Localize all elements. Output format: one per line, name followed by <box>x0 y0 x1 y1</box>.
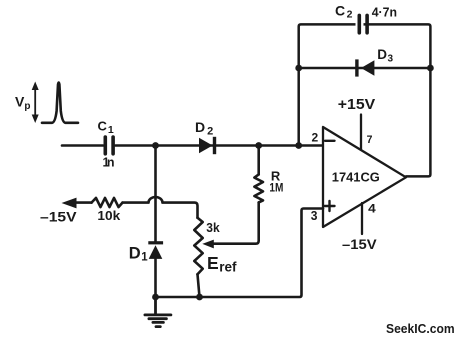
node junction at feedback branch <box>295 142 302 149</box>
wire pot bottom <box>198 274 200 297</box>
svg-text:7: 7 <box>367 134 373 146</box>
node junction ground <box>152 294 159 301</box>
capacitor C2 (gap in top wire) <box>356 23 364 27</box>
svg-text:–15V: –15V <box>342 237 377 252</box>
capacitor C1 <box>105 137 113 154</box>
potentiometer 3k <box>194 218 202 274</box>
svg-text:D1: D1 <box>129 245 148 264</box>
node junction at R branch <box>255 142 262 149</box>
wire D1 to ground <box>154 259 157 297</box>
svg-text:SeekIC.com: SeekIC.com <box>386 321 455 336</box>
op-amp plus symbol <box>325 201 335 211</box>
wire with bump over vertical line <box>123 197 198 218</box>
arrowhead -15V <box>62 198 77 209</box>
ground <box>145 297 171 327</box>
svg-text:10k: 10k <box>97 208 121 223</box>
wire D3 branch <box>299 67 431 70</box>
svg-text:1741CG: 1741CG <box>332 169 380 184</box>
op-amp U1 triangle <box>323 127 406 227</box>
wire main input right segment <box>116 144 324 147</box>
wire vertical from C1 node down <box>154 146 157 243</box>
svg-text:3: 3 <box>311 209 318 223</box>
wire R bottom to pot wiper <box>212 202 259 243</box>
wire main input left segment <box>62 144 103 147</box>
wire op-amp output to right vertical <box>299 24 431 176</box>
diode D1 <box>148 241 163 259</box>
svg-text:3k: 3k <box>206 221 219 235</box>
svg-text:1M: 1M <box>269 180 283 194</box>
Vp double arrow <box>34 86 36 119</box>
resistor 10k <box>92 198 123 207</box>
node junction D3 right <box>427 65 434 72</box>
pin 7 wire <box>360 115 362 150</box>
arrowhead wiper <box>202 240 214 249</box>
svg-text:1n: 1n <box>103 156 115 170</box>
node junction at C1 branch <box>152 142 159 149</box>
diode D3 <box>355 59 374 76</box>
op-amp minus symbol <box>325 140 335 142</box>
node junction D3 left <box>295 65 302 72</box>
svg-text:–15V: –15V <box>40 208 77 224</box>
wire R top stub <box>257 146 260 175</box>
svg-text:+15V: +15V <box>338 97 376 113</box>
svg-text:C2: C2 <box>335 2 353 20</box>
svg-text:C1: C1 <box>98 119 114 137</box>
svg-text:D2: D2 <box>195 119 213 138</box>
diode D2 <box>199 137 216 154</box>
Vp pulse waveform <box>42 83 78 123</box>
svg-text:4: 4 <box>368 204 376 216</box>
svg-text:Eref: Eref <box>207 253 237 275</box>
svg-text:4·7n: 4·7n <box>372 5 397 19</box>
resistor R 1M <box>254 174 263 202</box>
svg-text:Vp: Vp <box>15 93 30 112</box>
wire bottom net to pin 3 <box>156 209 324 298</box>
svg-text:2: 2 <box>312 130 319 144</box>
wire -15V / 10k with crossover bump <box>74 201 92 204</box>
svg-text:D3: D3 <box>377 47 393 64</box>
node junction pot bottom <box>196 294 203 301</box>
pin 4 wire <box>361 203 363 234</box>
